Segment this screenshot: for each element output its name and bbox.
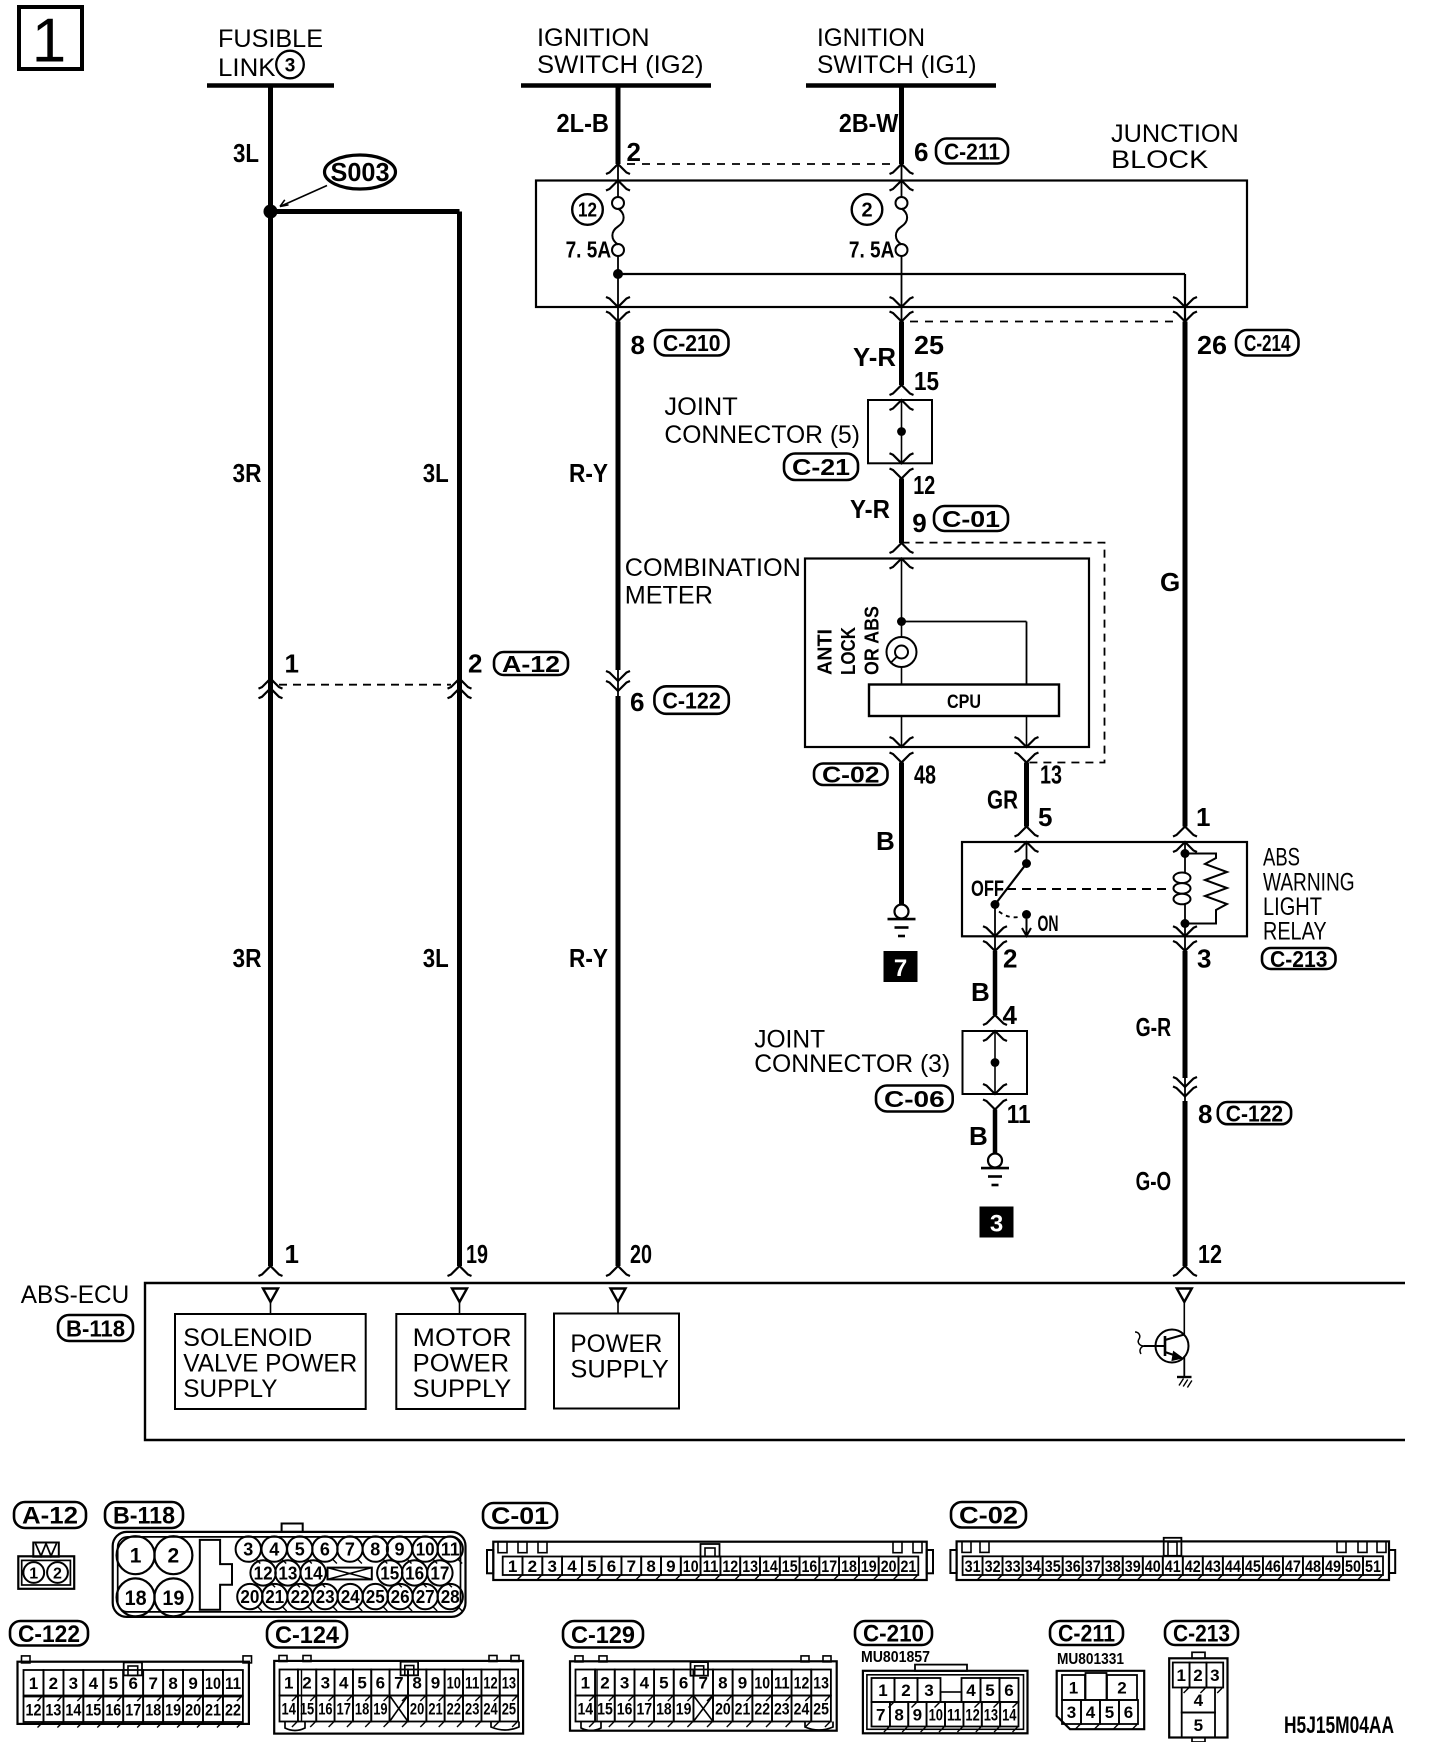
svg-text:12: 12 xyxy=(483,1674,497,1693)
svg-text:11: 11 xyxy=(947,1705,961,1724)
svg-text:39: 39 xyxy=(1125,1557,1141,1576)
svg-text:11: 11 xyxy=(465,1674,479,1693)
svg-text:6: 6 xyxy=(128,1674,137,1693)
svg-text:C-02: C-02 xyxy=(959,1502,1018,1529)
svg-text:9: 9 xyxy=(431,1674,440,1693)
svg-text:GR: GR xyxy=(987,785,1018,815)
svg-text:3: 3 xyxy=(620,1674,629,1693)
svg-text:48: 48 xyxy=(914,760,936,790)
svg-text:21: 21 xyxy=(735,1700,751,1719)
svg-text:10: 10 xyxy=(683,1557,699,1576)
svg-text:C-02: C-02 xyxy=(822,762,880,788)
svg-text:3: 3 xyxy=(321,1674,330,1693)
svg-text:IGNITION: IGNITION xyxy=(537,24,650,52)
svg-text:SUPPLY: SUPPLY xyxy=(570,1356,669,1384)
svg-text:6: 6 xyxy=(607,1557,616,1576)
svg-text:SUPPLY: SUPPLY xyxy=(413,1375,512,1403)
svg-text:20: 20 xyxy=(715,1700,731,1719)
svg-text:18: 18 xyxy=(355,1700,369,1719)
svg-text:13: 13 xyxy=(278,1563,297,1583)
svg-text:45: 45 xyxy=(1245,1557,1261,1576)
svg-text:3: 3 xyxy=(547,1557,556,1576)
svg-text:7. 5A: 7. 5A xyxy=(566,237,612,263)
svg-text:C-211: C-211 xyxy=(944,138,1000,164)
svg-text:15: 15 xyxy=(597,1700,613,1719)
svg-text:18: 18 xyxy=(125,1587,147,1610)
svg-text:4: 4 xyxy=(269,1540,279,1560)
svg-text:B: B xyxy=(969,1121,988,1151)
svg-text:8: 8 xyxy=(631,330,645,360)
svg-text:24: 24 xyxy=(483,1700,498,1719)
svg-text:50: 50 xyxy=(1345,1557,1361,1576)
svg-text:19: 19 xyxy=(861,1557,877,1576)
svg-text:22: 22 xyxy=(754,1700,770,1719)
svg-text:20: 20 xyxy=(630,1239,652,1269)
svg-text:3: 3 xyxy=(990,1211,1003,1238)
svg-text:3: 3 xyxy=(924,1681,933,1700)
svg-text:C-214: C-214 xyxy=(1244,330,1291,356)
svg-text:11: 11 xyxy=(441,1540,460,1560)
svg-text:42: 42 xyxy=(1185,1557,1201,1576)
svg-text:7: 7 xyxy=(394,1674,403,1693)
svg-text:44: 44 xyxy=(1225,1557,1241,1576)
svg-text:ABS: ABS xyxy=(1263,844,1300,872)
svg-text:8: 8 xyxy=(168,1674,177,1693)
svg-text:20: 20 xyxy=(410,1700,424,1719)
svg-text:4: 4 xyxy=(89,1674,99,1693)
svg-text:2: 2 xyxy=(468,649,482,679)
svg-text:2: 2 xyxy=(901,1681,910,1700)
svg-text:FUSIBLE: FUSIBLE xyxy=(218,25,323,53)
svg-text:6: 6 xyxy=(1124,1703,1133,1722)
svg-text:8: 8 xyxy=(894,1705,903,1724)
svg-text:POWER: POWER xyxy=(413,1350,509,1378)
svg-text:49: 49 xyxy=(1325,1557,1341,1576)
svg-text:6: 6 xyxy=(376,1674,385,1693)
svg-text:1: 1 xyxy=(878,1681,887,1700)
svg-text:34: 34 xyxy=(1025,1557,1041,1576)
svg-text:6: 6 xyxy=(679,1674,688,1693)
svg-text:13: 13 xyxy=(45,1700,61,1719)
svg-text:12: 12 xyxy=(794,1674,810,1693)
svg-text:5: 5 xyxy=(357,1674,366,1693)
svg-text:18: 18 xyxy=(841,1557,857,1576)
svg-text:2: 2 xyxy=(1117,1679,1126,1698)
svg-text:16: 16 xyxy=(802,1557,818,1576)
svg-text:H5J15M04AA: H5J15M04AA xyxy=(1284,1712,1394,1739)
svg-text:1: 1 xyxy=(29,1566,38,1583)
svg-text:8: 8 xyxy=(646,1557,655,1576)
svg-text:17: 17 xyxy=(337,1700,351,1719)
svg-text:19: 19 xyxy=(466,1239,488,1269)
svg-text:14: 14 xyxy=(1002,1705,1017,1724)
svg-text:17: 17 xyxy=(636,1700,652,1719)
svg-text:3L: 3L xyxy=(423,943,449,973)
svg-text:23: 23 xyxy=(774,1700,790,1719)
svg-text:13: 13 xyxy=(813,1674,829,1693)
svg-text:12: 12 xyxy=(722,1557,738,1576)
svg-text:1: 1 xyxy=(285,649,299,679)
svg-text:18: 18 xyxy=(656,1700,672,1719)
svg-text:15: 15 xyxy=(380,1563,399,1583)
svg-text:1: 1 xyxy=(32,7,66,76)
svg-text:5: 5 xyxy=(109,1674,118,1693)
svg-text:SUPPLY: SUPPLY xyxy=(183,1375,278,1403)
svg-text:5: 5 xyxy=(659,1674,668,1693)
svg-text:4: 4 xyxy=(1194,1691,1204,1710)
svg-text:SWITCH (IG2): SWITCH (IG2) xyxy=(537,51,704,79)
svg-text:CONNECTOR (5): CONNECTOR (5) xyxy=(664,421,860,449)
svg-text:13: 13 xyxy=(1040,760,1062,790)
svg-text:2: 2 xyxy=(1003,944,1017,974)
svg-text:23: 23 xyxy=(316,1587,335,1607)
svg-text:51: 51 xyxy=(1365,1557,1381,1576)
svg-text:21: 21 xyxy=(265,1587,284,1607)
svg-text:21: 21 xyxy=(205,1700,221,1719)
svg-text:46: 46 xyxy=(1265,1557,1281,1576)
svg-text:METER: METER xyxy=(625,582,713,610)
svg-text:4: 4 xyxy=(1086,1703,1096,1722)
svg-text:22: 22 xyxy=(225,1700,241,1719)
svg-text:24: 24 xyxy=(794,1700,810,1719)
svg-text:19: 19 xyxy=(165,1700,181,1719)
svg-text:13: 13 xyxy=(502,1674,516,1693)
svg-text:C-01: C-01 xyxy=(491,1503,549,1530)
svg-text:1: 1 xyxy=(508,1557,517,1576)
svg-text:48: 48 xyxy=(1305,1557,1321,1576)
svg-text:SOLENOID: SOLENOID xyxy=(183,1324,312,1352)
svg-text:2: 2 xyxy=(53,1566,62,1583)
svg-text:17: 17 xyxy=(821,1557,837,1576)
svg-text:2: 2 xyxy=(1193,1666,1202,1685)
svg-text:C-01: C-01 xyxy=(942,506,1000,532)
svg-text:C-122: C-122 xyxy=(1226,1100,1283,1126)
svg-text:LINK: LINK xyxy=(218,54,276,82)
svg-text:7: 7 xyxy=(345,1540,355,1560)
svg-text:S003: S003 xyxy=(331,157,390,187)
svg-text:2: 2 xyxy=(861,200,872,222)
svg-text:ANTI: ANTI xyxy=(815,629,837,675)
svg-text:14: 14 xyxy=(577,1700,593,1719)
svg-text:3: 3 xyxy=(285,56,296,77)
svg-text:12: 12 xyxy=(578,200,597,222)
svg-text:13: 13 xyxy=(742,1557,758,1576)
svg-text:4: 4 xyxy=(567,1557,577,1576)
svg-text:4: 4 xyxy=(1003,1000,1018,1030)
svg-text:12: 12 xyxy=(965,1705,979,1724)
svg-text:43: 43 xyxy=(1205,1557,1221,1576)
svg-text:POWER: POWER xyxy=(570,1330,662,1358)
svg-text:R-Y: R-Y xyxy=(569,458,608,488)
svg-text:26: 26 xyxy=(1197,330,1227,360)
svg-text:14: 14 xyxy=(282,1700,297,1719)
svg-text:10: 10 xyxy=(754,1674,770,1693)
svg-text:27: 27 xyxy=(416,1587,435,1607)
svg-text:15: 15 xyxy=(85,1700,101,1719)
svg-text:5: 5 xyxy=(295,1540,305,1560)
svg-text:A-12: A-12 xyxy=(22,1503,78,1530)
svg-text:2: 2 xyxy=(528,1557,537,1576)
svg-text:BLOCK: BLOCK xyxy=(1111,146,1209,174)
svg-text:9: 9 xyxy=(188,1674,197,1693)
svg-text:15: 15 xyxy=(782,1557,798,1576)
svg-text:C-124: C-124 xyxy=(275,1622,340,1649)
svg-text:3L: 3L xyxy=(423,458,449,488)
svg-text:14: 14 xyxy=(762,1557,778,1576)
svg-text:47: 47 xyxy=(1285,1557,1301,1576)
svg-text:B-118: B-118 xyxy=(66,1315,125,1341)
svg-text:21: 21 xyxy=(428,1700,442,1719)
svg-text:1: 1 xyxy=(581,1674,590,1693)
svg-text:C-210: C-210 xyxy=(663,330,721,356)
svg-text:8: 8 xyxy=(370,1540,380,1560)
svg-text:C-210: C-210 xyxy=(863,1621,924,1648)
svg-text:B: B xyxy=(876,826,895,856)
svg-text:40: 40 xyxy=(1145,1557,1161,1576)
svg-text:C-06: C-06 xyxy=(884,1086,945,1112)
svg-text:16: 16 xyxy=(617,1700,633,1719)
svg-text:2: 2 xyxy=(168,1545,180,1568)
svg-text:17: 17 xyxy=(430,1563,449,1583)
svg-text:1: 1 xyxy=(1069,1679,1078,1698)
svg-text:25: 25 xyxy=(502,1700,516,1719)
svg-text:12: 12 xyxy=(913,470,935,500)
svg-text:C-122: C-122 xyxy=(18,1621,80,1648)
svg-text:25: 25 xyxy=(914,330,944,360)
svg-text:16: 16 xyxy=(318,1700,332,1719)
svg-text:3: 3 xyxy=(1210,1666,1219,1685)
svg-text:28: 28 xyxy=(441,1587,460,1607)
svg-text:37: 37 xyxy=(1085,1557,1101,1576)
svg-text:2: 2 xyxy=(302,1674,311,1693)
svg-text:ON: ON xyxy=(1038,911,1059,936)
svg-text:3R: 3R xyxy=(233,943,262,973)
svg-text:1: 1 xyxy=(1176,1666,1185,1685)
svg-text:OR ABS: OR ABS xyxy=(862,606,884,675)
svg-text:15: 15 xyxy=(914,366,939,396)
svg-text:6: 6 xyxy=(914,137,928,167)
svg-text:1: 1 xyxy=(284,1674,293,1693)
svg-text:7: 7 xyxy=(698,1674,707,1693)
svg-text:CPU: CPU xyxy=(947,692,981,713)
svg-text:2B-W: 2B-W xyxy=(839,108,899,138)
svg-text:3: 3 xyxy=(243,1540,253,1560)
svg-text:19: 19 xyxy=(162,1587,184,1610)
svg-text:10: 10 xyxy=(447,1674,461,1693)
svg-text:5: 5 xyxy=(985,1681,994,1700)
svg-text:B-118: B-118 xyxy=(113,1503,175,1530)
svg-text:9: 9 xyxy=(913,1705,922,1724)
svg-text:16: 16 xyxy=(405,1563,424,1583)
svg-text:8: 8 xyxy=(1198,1099,1212,1129)
svg-text:20: 20 xyxy=(881,1557,897,1576)
svg-text:35: 35 xyxy=(1045,1557,1061,1576)
svg-text:R-Y: R-Y xyxy=(569,943,608,973)
svg-text:6: 6 xyxy=(320,1540,330,1560)
svg-text:11: 11 xyxy=(1007,1099,1031,1129)
svg-text:22: 22 xyxy=(291,1587,310,1607)
svg-text:JUNCTION: JUNCTION xyxy=(1111,120,1239,148)
svg-text:G-O: G-O xyxy=(1136,1166,1172,1196)
svg-text:MU801857: MU801857 xyxy=(861,1649,930,1666)
svg-text:10: 10 xyxy=(416,1540,435,1560)
svg-text:12: 12 xyxy=(26,1700,42,1719)
svg-text:14: 14 xyxy=(304,1563,323,1583)
svg-text:17: 17 xyxy=(125,1700,141,1719)
svg-text:Y-R: Y-R xyxy=(853,342,896,372)
svg-text:8: 8 xyxy=(718,1674,727,1693)
svg-text:3: 3 xyxy=(1197,944,1211,974)
svg-text:2: 2 xyxy=(49,1674,58,1693)
svg-text:1: 1 xyxy=(1196,802,1210,832)
svg-text:7: 7 xyxy=(148,1674,157,1693)
svg-text:11: 11 xyxy=(774,1674,790,1693)
svg-text:36: 36 xyxy=(1065,1557,1081,1576)
svg-text:10: 10 xyxy=(205,1674,221,1693)
svg-text:10: 10 xyxy=(929,1705,943,1724)
svg-text:OFF: OFF xyxy=(971,876,1004,901)
svg-text:C-21: C-21 xyxy=(792,454,850,480)
svg-text:12: 12 xyxy=(254,1563,273,1583)
svg-text:4: 4 xyxy=(640,1674,650,1693)
svg-text:2: 2 xyxy=(600,1674,609,1693)
svg-text:38: 38 xyxy=(1105,1557,1121,1576)
svg-text:5: 5 xyxy=(1038,802,1052,832)
svg-text:C-211: C-211 xyxy=(1058,1621,1115,1648)
svg-text:C-213: C-213 xyxy=(1270,946,1328,972)
svg-text:33: 33 xyxy=(1005,1557,1021,1576)
svg-text:19: 19 xyxy=(373,1700,387,1719)
svg-text:C-213: C-213 xyxy=(1173,1621,1230,1648)
svg-text:20: 20 xyxy=(185,1700,201,1719)
svg-text:8: 8 xyxy=(412,1674,421,1693)
svg-text:4: 4 xyxy=(339,1674,349,1693)
svg-text:5: 5 xyxy=(1194,1716,1203,1735)
svg-text:G-R: G-R xyxy=(1136,1012,1172,1042)
svg-text:14: 14 xyxy=(65,1700,81,1719)
svg-text:16: 16 xyxy=(105,1700,121,1719)
svg-text:SWITCH (IG1): SWITCH (IG1) xyxy=(817,51,977,79)
svg-text:1: 1 xyxy=(130,1545,142,1568)
svg-text:3R: 3R xyxy=(233,458,262,488)
svg-text:2: 2 xyxy=(627,137,641,167)
svg-text:IGNITION: IGNITION xyxy=(817,24,925,52)
svg-text:2L-B: 2L-B xyxy=(557,108,610,138)
svg-text:ABS-ECU: ABS-ECU xyxy=(21,1281,129,1309)
svg-text:3: 3 xyxy=(1067,1703,1076,1722)
svg-text:12: 12 xyxy=(1198,1239,1222,1269)
svg-text:5: 5 xyxy=(1105,1703,1114,1722)
svg-text:LOCK: LOCK xyxy=(838,627,860,675)
svg-text:20: 20 xyxy=(240,1587,259,1607)
svg-text:4: 4 xyxy=(966,1681,976,1700)
svg-text:13: 13 xyxy=(984,1705,998,1724)
svg-text:11: 11 xyxy=(225,1674,241,1693)
svg-text:C-129: C-129 xyxy=(571,1622,635,1649)
svg-text:7. 5A: 7. 5A xyxy=(849,237,895,263)
svg-text:41: 41 xyxy=(1165,1557,1181,1576)
svg-text:MU801331: MU801331 xyxy=(1057,1651,1124,1668)
svg-text:C-122: C-122 xyxy=(662,687,720,713)
svg-text:B: B xyxy=(971,977,990,1007)
svg-text:Y-R: Y-R xyxy=(850,494,890,524)
svg-text:3: 3 xyxy=(69,1674,78,1693)
svg-text:CONNECTOR (3): CONNECTOR (3) xyxy=(754,1050,950,1078)
svg-text:9: 9 xyxy=(912,508,926,538)
svg-text:3L: 3L xyxy=(233,138,259,168)
svg-text:9: 9 xyxy=(394,1540,404,1560)
svg-text:18: 18 xyxy=(145,1700,161,1719)
svg-text:7: 7 xyxy=(894,955,907,982)
svg-text:31: 31 xyxy=(965,1557,981,1576)
svg-text:VALVE POWER: VALVE POWER xyxy=(183,1350,357,1378)
svg-text:19: 19 xyxy=(676,1700,692,1719)
svg-text:COMBINATION: COMBINATION xyxy=(625,554,801,582)
svg-text:9: 9 xyxy=(666,1557,675,1576)
svg-text:RELAY: RELAY xyxy=(1263,918,1327,946)
svg-text:9: 9 xyxy=(738,1674,747,1693)
svg-text:5: 5 xyxy=(587,1557,596,1576)
svg-text:26: 26 xyxy=(391,1587,410,1607)
svg-text:7: 7 xyxy=(876,1705,885,1724)
svg-text:25: 25 xyxy=(813,1700,829,1719)
svg-text:32: 32 xyxy=(985,1557,1001,1576)
svg-text:MOTOR: MOTOR xyxy=(413,1324,512,1352)
svg-text:11: 11 xyxy=(703,1557,719,1576)
svg-text:22: 22 xyxy=(447,1700,461,1719)
svg-text:G: G xyxy=(1160,567,1180,597)
svg-text:21: 21 xyxy=(901,1557,917,1576)
svg-text:25: 25 xyxy=(366,1587,385,1607)
svg-text:1: 1 xyxy=(29,1674,38,1693)
svg-text:24: 24 xyxy=(341,1587,360,1607)
svg-text:6: 6 xyxy=(1004,1681,1013,1700)
svg-text:7: 7 xyxy=(627,1557,636,1576)
svg-text:23: 23 xyxy=(465,1700,479,1719)
svg-text:JOINT: JOINT xyxy=(664,393,737,421)
svg-text:1: 1 xyxy=(285,1239,299,1269)
svg-text:A-12: A-12 xyxy=(502,651,560,677)
svg-text:6: 6 xyxy=(630,687,644,717)
